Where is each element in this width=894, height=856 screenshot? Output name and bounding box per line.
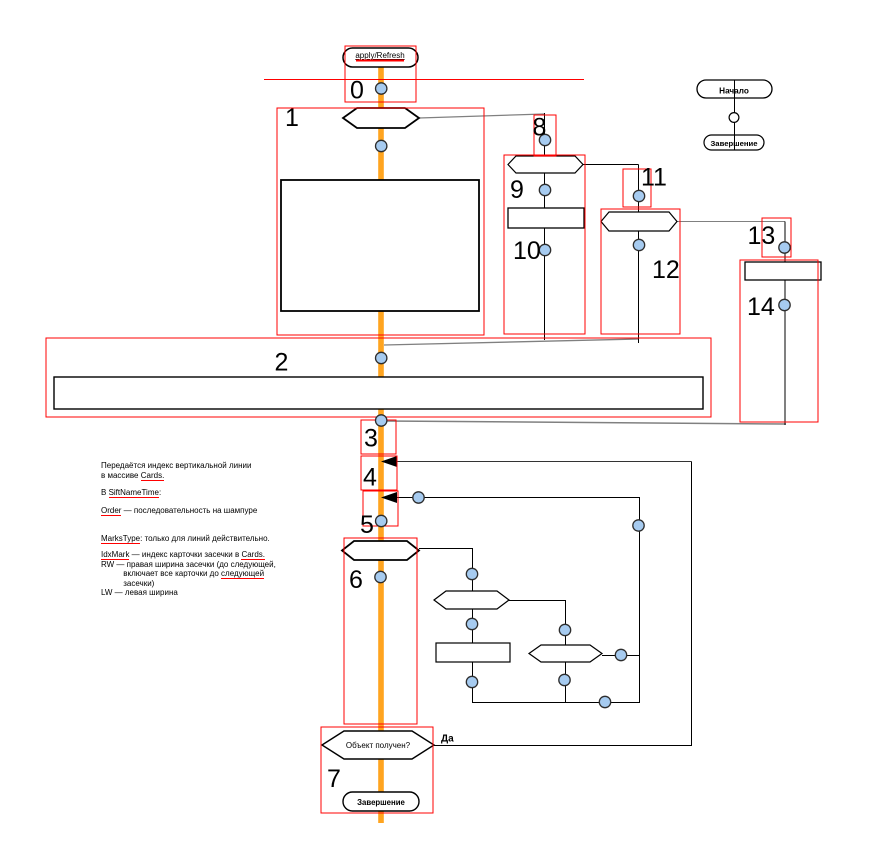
svg-text:Начало: Начало — [719, 87, 749, 96]
hexagon 1 — [343, 108, 419, 128]
svg-text:0: 0 — [350, 77, 364, 105]
node circle C — [466, 618, 477, 629]
node circle on right vertical — [633, 520, 644, 531]
cluster hexagon B — [434, 591, 509, 609]
wire: column 13-14 vertical — [784, 222, 786, 426]
wire: merge line A from main to column12 bottom (gray) — [384, 339, 639, 345]
node circle 8 — [539, 134, 550, 145]
annotation text paragraph 4 — [101, 534, 270, 544]
node circle 9 — [539, 184, 550, 195]
wide rectangle in box 2 — [54, 377, 703, 409]
red overlay box 0 — [345, 46, 416, 102]
wire: column 11-12 vertical — [638, 165, 640, 344]
wire: arrow5 horizontal line — [397, 497, 640, 499]
node circle on arrow5 line — [413, 492, 424, 503]
svg-text:Завершение: Завершение — [357, 798, 405, 807]
red overlay box 7 — [321, 727, 433, 813]
svg-text:1: 1 — [285, 104, 299, 132]
svg-text:2: 2 — [275, 349, 289, 377]
stadium Nachalo — [697, 80, 772, 98]
svg-text:8: 8 — [533, 114, 547, 142]
cluster hexagon G — [529, 645, 602, 662]
svg-text:Завершение: Завершение — [710, 139, 758, 148]
node circle 13 — [779, 242, 790, 253]
annotation text paragraph 3 — [101, 506, 257, 516]
big rectangle in box 1 — [281, 180, 479, 311]
red overlay box 5 — [363, 491, 398, 526]
node circle E — [466, 676, 477, 687]
node circle A — [466, 568, 477, 579]
svg-text:3: 3 — [364, 425, 378, 453]
wire: loop vertical x691 — [691, 462, 693, 747]
svg-text:4: 4 — [363, 464, 377, 492]
svg-text:14: 14 — [747, 293, 775, 321]
node circle I — [559, 674, 570, 685]
node circle J — [615, 649, 626, 660]
node circle 5 — [376, 515, 387, 526]
wire: Nachalo to Zavershenie vertical — [734, 80, 736, 150]
wire: hexagon6 right to hexagon B — [419, 549, 473, 592]
node circle 3 — [376, 415, 387, 426]
svg-text:9: 9 — [510, 176, 524, 204]
arrowhead into box 5 — [381, 492, 397, 503]
rectangle 10 — [508, 208, 584, 228]
annotation text paragraph 1 — [101, 461, 251, 480]
orange main flow line — [378, 67, 384, 823]
hexagon 9 — [508, 156, 583, 173]
stadium Zavershenie (right) — [704, 135, 764, 150]
stadium Zavershenie (bottom) — [343, 792, 419, 811]
wire: column 8-10 vertical — [544, 113, 546, 340]
annotation text paragraph 2 — [101, 488, 161, 498]
red overlay box 2 — [46, 338, 711, 417]
node circle 0 — [376, 83, 387, 94]
node circle 1 — [376, 140, 387, 151]
red overlay box 3 — [361, 420, 396, 454]
hexagon 6 — [342, 541, 419, 560]
svg-text:11: 11 — [641, 164, 667, 192]
red horizontal marker line (top) — [264, 79, 584, 81]
svg-text:5: 5 — [360, 511, 374, 539]
wire: hexagon12 to column13 (gray) — [677, 221, 785, 223]
red underline under apply/Refresh — [356, 60, 404, 62]
red overlay box 13 — [762, 218, 791, 257]
red overlay box 8 — [534, 115, 556, 156]
svg-text:Объект получен?: Объект получен? — [346, 741, 411, 750]
svg-text:Да: Да — [441, 734, 454, 745]
cluster rectangle D — [436, 643, 510, 662]
wire: Da line from hexagon7 — [434, 745, 692, 747]
wire: hexagon G down to bottom bus — [565, 662, 567, 702]
wire: hexagon B down to rect D — [472, 609, 474, 643]
wire: arrow4 horizontal line — [397, 461, 692, 463]
svg-text:13: 13 — [748, 222, 776, 250]
svg-text:6: 6 — [349, 566, 363, 594]
node circle 2 — [376, 352, 387, 363]
svg-text:12: 12 — [652, 256, 680, 284]
hexagon 7 (question) — [322, 731, 434, 759]
start stadium apply/Refresh — [343, 48, 418, 67]
red overlay box 12 — [601, 209, 680, 334]
node circle F — [599, 696, 610, 707]
annotation text paragraph 5 — [101, 550, 276, 598]
node circle H — [559, 624, 570, 635]
svg-text:7: 7 — [327, 765, 341, 793]
wire: cluster right vertical up to arrow5 line — [639, 498, 641, 704]
wire: hexagon9 to column11 — [583, 164, 639, 166]
node circle 11 — [633, 190, 644, 201]
red overlay box 6 — [344, 538, 417, 724]
node circle 14 — [779, 299, 790, 310]
wire: cluster bottom bus — [472, 702, 639, 704]
svg-text:10: 10 — [513, 237, 541, 265]
wire: rect D down to bottom bus — [472, 662, 474, 702]
svg-text:apply/Refresh: apply/Refresh — [355, 51, 404, 60]
arrowhead into box 4 — [381, 456, 397, 467]
rectangle 14 — [745, 262, 821, 280]
red overlay box 9-10 — [504, 155, 585, 334]
wire: hexagon G right to vertical 639 — [602, 655, 639, 657]
red overlay box 14 — [740, 260, 818, 422]
red overlay box 1 — [277, 108, 484, 335]
node circle 12 — [633, 239, 644, 250]
wire: merge line B from main to column14 bottom (gray) — [384, 421, 786, 424]
red overlay box 4 — [361, 456, 397, 490]
red overlay box 11 — [623, 169, 651, 207]
wire: hexagon1 to column8 (gray) — [419, 114, 544, 118]
wire: hexagon B right to hexagon G — [509, 601, 566, 646]
small white circle node — [729, 113, 739, 123]
node circle 10 — [539, 244, 550, 255]
node circle 6 — [375, 571, 386, 582]
hexagon 12 — [601, 212, 677, 231]
